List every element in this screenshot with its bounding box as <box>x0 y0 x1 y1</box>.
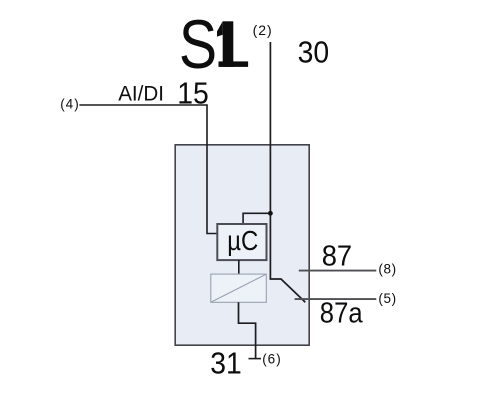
wire coil to terminal 31 (6) <box>239 302 256 358</box>
svg-text:(4): (4) <box>60 96 79 111</box>
svg-text:87: 87 <box>322 240 352 272</box>
svg-text:µC: µC <box>227 227 258 257</box>
relay body box K1 <box>175 145 309 345</box>
svg-text:S: S <box>179 7 217 83</box>
svg-text:31: 31 <box>210 347 242 381</box>
coil diagonal <box>211 274 266 302</box>
label S1 : digit 1 flag <box>217 21 223 36</box>
terminal 31 tick <box>249 358 262 360</box>
svg-text:(5): (5) <box>378 291 396 306</box>
svg-text:30: 30 <box>298 36 330 70</box>
svg-text:AI/DI: AI/DI <box>118 82 164 105</box>
svg-text:(8): (8) <box>378 261 396 276</box>
label S1 : digit 1 stem <box>223 21 234 67</box>
terminal 87 line (8) <box>299 270 377 272</box>
svg-text:87a: 87a <box>320 296 364 329</box>
svg-text:(2): (2) <box>253 22 273 38</box>
svg-text:15: 15 <box>177 76 209 110</box>
svg-text:(6): (6) <box>262 352 282 367</box>
wire microcontroller to relay coil <box>238 260 240 274</box>
wire from terminal 15 (4) to microcontroller input <box>79 105 217 234</box>
junction dot <box>268 211 273 216</box>
relay coil <box>211 274 266 302</box>
microcontroller box U1 <box>217 224 266 260</box>
wire microcontroller supply to node on 30 line <box>243 213 270 224</box>
wire terminal 30 (2) down to changeover contact <box>270 42 305 302</box>
label S1 : digit 1 base bar <box>219 61 249 67</box>
terminal 87a line (5) <box>295 298 377 300</box>
